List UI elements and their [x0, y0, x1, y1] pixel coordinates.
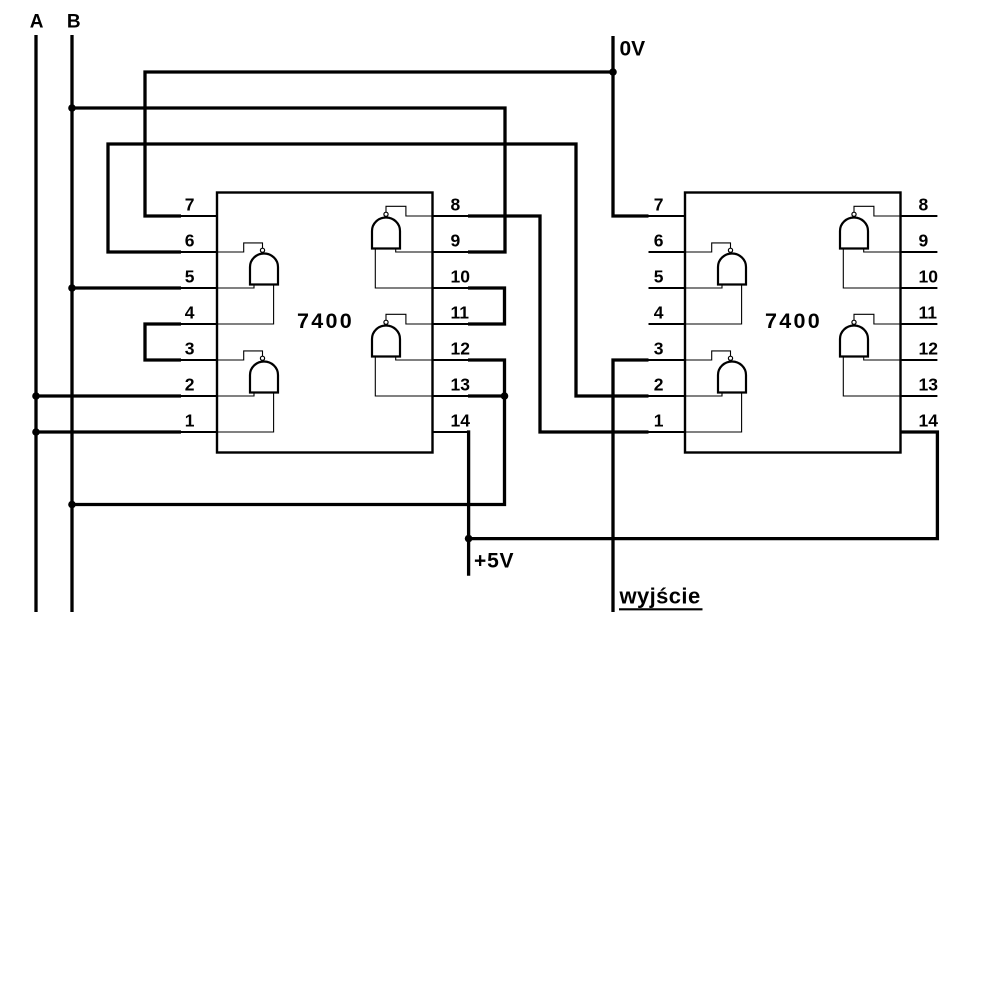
wire U1 pin 6 to U2 pin 2: [108, 144, 649, 396]
svg-text:9: 9: [451, 231, 461, 251]
svg-text:wyjście: wyjście: [619, 584, 701, 609]
U1-B input wire A: [217, 393, 254, 397]
junction dot B / pins12-13 wire: [68, 501, 76, 509]
U2-B input wire B: [685, 393, 742, 433]
wire U2 pin 14 stub: [901, 431, 938, 433]
wire net B to U1 pin 5: [72, 286, 181, 289]
U2-A input wire B: [685, 285, 742, 325]
U1-A NAND body: [250, 254, 278, 285]
U1 pin 5 stub: [181, 287, 218, 289]
junction dot A / pin1 wire: [32, 428, 40, 436]
U2 pin 10 stub: [900, 287, 938, 289]
U1-D inversion bubble: [384, 320, 388, 324]
junction dot B / pin5 wire: [68, 284, 76, 292]
U2-C NAND body: [840, 218, 868, 249]
U1 pin 11 stub: [432, 323, 469, 325]
U1-A input wire B: [217, 285, 274, 325]
U2 pin 12 stub: [900, 359, 938, 361]
U2-A inversion bubble: [728, 248, 732, 252]
U2 pin 13 stub: [900, 395, 938, 397]
svg-text:11: 11: [451, 303, 470, 323]
wire 0V vertical rail down to U2 pin 7: [613, 36, 649, 216]
U2 pin 6 stub: [649, 251, 687, 253]
junction dot A / pin2 wire: [32, 392, 40, 400]
U1-A output wire to pin: [217, 243, 263, 252]
U1-A input wire A: [217, 285, 254, 289]
wire +5V rail to U2 pin 14: [469, 432, 938, 539]
underline of wyjscie label: [619, 608, 703, 610]
U1-C inversion bubble: [384, 212, 388, 216]
U2 pin 4 stub: [649, 323, 687, 325]
svg-text:4: 4: [185, 303, 195, 323]
wire output from U2 pin 3: [613, 360, 649, 612]
svg-text:2: 2: [185, 375, 195, 395]
U2 pin 1 stub: [649, 431, 687, 433]
svg-text:14: 14: [919, 411, 939, 431]
wire net A vertical bus: [34, 35, 37, 612]
gate U2-D NAND (pins 12,13 -> 11): [840, 314, 901, 396]
wire U1 pins 12+13 to net B: [72, 360, 505, 505]
U2-B NAND body: [718, 362, 746, 393]
U1-C input wire A: [396, 249, 433, 253]
svg-text:B: B: [67, 12, 81, 33]
svg-text:6: 6: [185, 231, 195, 251]
U1 pin 6 stub: [181, 251, 218, 253]
U2-D input wire B: [843, 357, 900, 397]
svg-text:13: 13: [919, 375, 939, 395]
svg-text:A: A: [30, 12, 44, 33]
U2-D NAND body: [840, 326, 868, 357]
U1-D input wire A: [396, 357, 433, 361]
wire net A to U1 pin 2: [36, 394, 181, 397]
svg-text:6: 6: [654, 231, 664, 251]
U2 pin 2 stub: [649, 395, 687, 397]
U2-D output wire to pin: [854, 314, 901, 324]
wire U1 pin 13 stub to junction: [468, 394, 505, 397]
svg-text:3: 3: [185, 339, 195, 359]
U1 pin 7 stub: [181, 215, 218, 217]
svg-text:10: 10: [919, 267, 939, 287]
svg-text:5: 5: [654, 267, 664, 287]
U2 pin 8 stub: [900, 215, 938, 217]
U1 pin 3 stub: [181, 359, 218, 361]
U1 pin 1 stub: [181, 431, 218, 433]
svg-text:8: 8: [451, 195, 461, 215]
svg-text:14: 14: [451, 411, 471, 431]
U2-D input wire A: [864, 357, 901, 361]
svg-text:9: 9: [919, 231, 929, 251]
U1-D input wire B: [375, 357, 432, 397]
svg-text:12: 12: [451, 339, 471, 359]
svg-text:7: 7: [185, 195, 195, 215]
U1 pin 10 stub: [432, 287, 469, 289]
svg-text:0V: 0V: [620, 38, 646, 61]
U2 pin 14 stub: [900, 431, 938, 433]
svg-text:1: 1: [185, 411, 195, 431]
U2-C input wire B: [843, 249, 900, 289]
wire 0V branch to U1 pin 7: [145, 72, 613, 216]
svg-text:1: 1: [654, 411, 664, 431]
IC U1 7400 body: [217, 193, 433, 453]
svg-text:7400: 7400: [765, 309, 822, 333]
U2-C input wire A: [864, 249, 901, 253]
svg-text:7: 7: [654, 195, 664, 215]
U2 pin 7 stub: [649, 215, 687, 217]
junction dot pins 12/13: [501, 392, 509, 400]
U1-C output wire to pin: [386, 206, 433, 216]
U1-C input wire B: [375, 249, 432, 289]
gate U2-A NAND (pins 4,5 -> 6): [685, 243, 746, 324]
svg-text:8: 8: [919, 195, 929, 215]
wire net A to U1 pin 1: [36, 430, 181, 433]
IC U2 7400 body: [685, 193, 901, 453]
junction dot +5V: [465, 535, 473, 543]
svg-text:7400: 7400: [297, 309, 354, 333]
U1-D NAND body: [372, 326, 400, 357]
svg-text:2: 2: [654, 375, 664, 395]
svg-text:5: 5: [185, 267, 195, 287]
U2-B output wire to pin: [685, 351, 731, 360]
U1 pin 8 stub: [432, 215, 469, 217]
svg-text:11: 11: [919, 303, 938, 323]
U1 pin 9 stub: [432, 251, 469, 253]
wire U1 pin 8 to U2 pin 1: [468, 216, 649, 432]
wire net B vertical bus: [70, 35, 73, 612]
U2-A NAND body: [718, 254, 746, 285]
U2-A output wire to pin: [685, 243, 731, 252]
U1-B inversion bubble: [260, 356, 264, 360]
U1-A inversion bubble: [260, 248, 264, 252]
gate U1-C NAND (pins 9,10 -> 8): [372, 206, 433, 288]
U2-A input wire A: [685, 285, 722, 289]
U2-C inversion bubble: [852, 212, 856, 216]
U1-B NAND body: [250, 362, 278, 393]
wire U1 pin 10 to pin 11 U-link: [468, 288, 505, 324]
U2-B input wire A: [685, 393, 722, 397]
U1 pin 14 stub: [432, 431, 469, 433]
U2 pin 3 stub: [649, 359, 687, 361]
wire U1 pin 4 to pin 3 U-link: [145, 324, 181, 360]
U1-C NAND body: [372, 218, 400, 249]
svg-text:3: 3: [654, 339, 664, 359]
U1-B input wire B: [217, 393, 274, 433]
svg-text:10: 10: [451, 267, 471, 287]
wire net B to U1 pin 9: [72, 108, 505, 252]
U2 pin 9 stub: [900, 251, 938, 253]
U1 pin 2 stub: [181, 395, 218, 397]
U2 pin 11 stub: [900, 323, 938, 325]
U2 pin 5 stub: [649, 287, 687, 289]
U1-D output wire to pin: [386, 314, 433, 324]
gate U2-C NAND (pins 9,10 -> 8): [840, 206, 901, 288]
wire U1 pin 14 down to +5V rail: [467, 430, 470, 575]
gate U1-D NAND (pins 12,13 -> 11): [372, 314, 433, 396]
gate U2-B NAND (pins 1,2 -> 3): [685, 351, 746, 432]
junction dot 0V rail: [609, 68, 617, 76]
gate U1-B NAND (pins 1,2 -> 3): [217, 351, 278, 432]
U1-B output wire to pin: [217, 351, 263, 360]
U2-B inversion bubble: [728, 356, 732, 360]
svg-text:+5V: +5V: [474, 550, 514, 573]
U2-C output wire to pin: [854, 206, 901, 216]
svg-text:4: 4: [654, 303, 664, 323]
U1 pin 13 stub: [432, 395, 469, 397]
junction dot B / pin9 wire: [68, 104, 76, 112]
svg-text:13: 13: [451, 375, 471, 395]
U2-D inversion bubble: [852, 320, 856, 324]
U1 pin 12 stub: [432, 359, 469, 361]
U1 pin 4 stub: [181, 323, 218, 325]
gate U1-A NAND (pins 4,5 -> 6): [217, 243, 278, 324]
svg-text:12: 12: [919, 339, 939, 359]
